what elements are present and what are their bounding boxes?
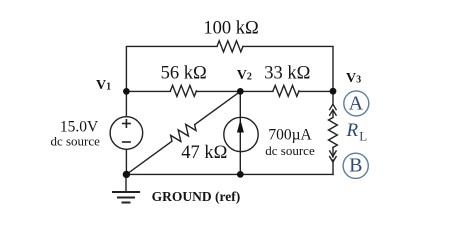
svg-text:56 kΩ: 56 kΩ [161, 64, 207, 84]
svg-text:dc source: dc source [265, 143, 315, 158]
svg-text:33 kΩ: 33 kΩ [264, 64, 310, 84]
svg-text:47 kΩ: 47 kΩ [181, 143, 227, 163]
svg-text:L: L [359, 129, 367, 144]
svg-text:dc source: dc source [50, 133, 100, 148]
svg-text:B: B [349, 154, 362, 176]
svg-text:100 kΩ: 100 kΩ [203, 19, 258, 39]
svg-text:R: R [346, 120, 359, 141]
svg-text:A: A [349, 93, 364, 115]
svg-text:700µA: 700µA [268, 127, 312, 144]
svg-text:GROUND (ref): GROUND (ref) [152, 189, 241, 204]
